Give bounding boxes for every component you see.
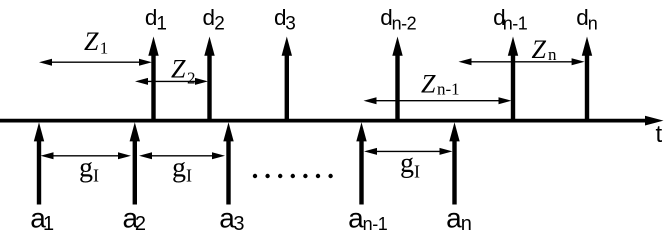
arrival pulse dn-1 [508,37,518,120]
arrival pulse d2 [204,37,214,120]
interval arrow Zn [459,58,585,65]
ellipsis dots [253,174,333,178]
interval arrow gI (a2-a3) [139,152,225,159]
departure pulse a2 [130,122,140,204]
interval arrow Z1 [39,59,152,66]
arrival pulse d1 [148,37,158,120]
time axis [1,116,664,126]
interval arrow Zn-1 [364,97,512,104]
interval arrow Z2 [135,78,208,85]
departure pulse a3 [223,122,233,204]
arrival pulse d3 [282,37,292,120]
arrival pulse dn-2 [392,37,402,120]
departure pulse an-1 [356,122,366,204]
svg-text:t: t [656,121,663,148]
departure pulse a1 [34,122,44,204]
interval arrow gI (a1-a2) [41,152,132,159]
arrival pulse dn [582,37,592,120]
interval arrow gI (an-1 - an) [364,148,453,155]
departure pulse an [449,122,459,204]
